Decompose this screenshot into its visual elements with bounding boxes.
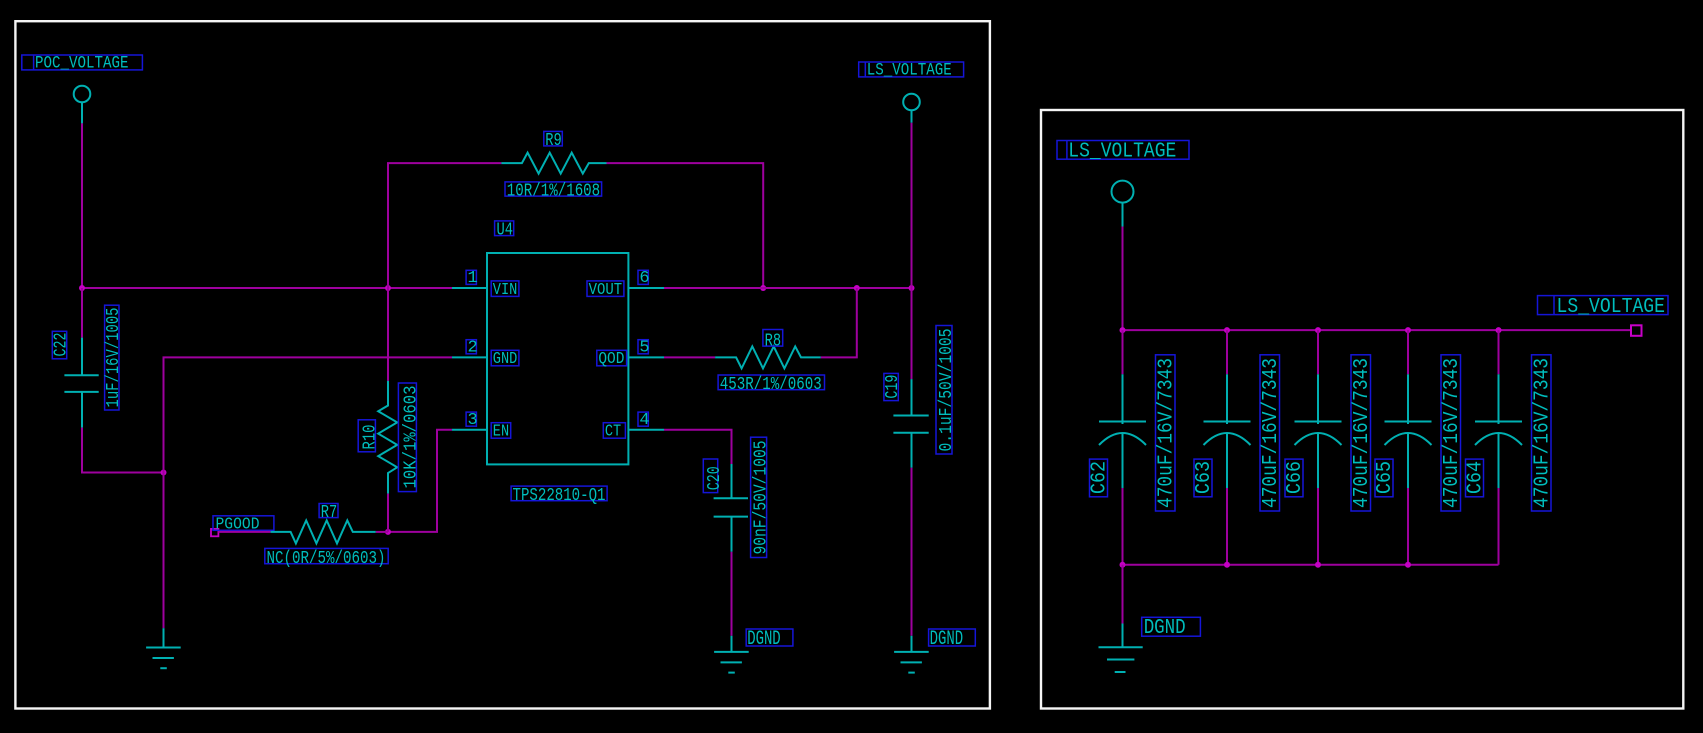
ground [146,628,181,668]
label DGND C19 [929,628,976,651]
flag LS_VOLTAGE right side [1538,296,1669,319]
pin 3 stub [452,429,487,431]
pin number 1 [466,269,478,288]
label C22 [51,331,72,359]
wire R9 left riser [388,163,501,288]
op-amp U4 TPS22810-Q1 body [487,253,628,464]
svg-text:3: 3 [468,411,478,430]
node bus C63 [1224,327,1230,333]
svg-text:LS_VOLTAGE: LS_VOLTAGE [1068,141,1176,164]
wire R8 to VOUT riser [821,288,857,357]
svg-text:453R/1%/0603: 453R/1%/0603 [720,374,822,395]
wire VIN horizontal [82,287,452,289]
svg-text:VIN: VIN [493,281,518,300]
resistor R7 [271,520,376,543]
node GND junction [161,470,167,476]
svg-text:470uF/16V/7343: 470uF/16V/7343 [1531,358,1554,508]
capacitor C65 [1385,374,1432,488]
svg-text:DGND: DGND [1144,617,1186,640]
pin number 2 [466,339,478,358]
pin number 3 [466,411,478,430]
svg-text:5: 5 [639,339,649,358]
resistor R9 [501,153,606,174]
svg-text:C65: C65 [1374,461,1397,494]
svg-text:VOUT: VOUT [589,281,623,300]
svg-text:C19: C19 [882,375,903,399]
value C62 470uF/16V/7343 [1155,355,1178,511]
node bus C65 [1405,327,1411,333]
wire CT to C20 [664,430,732,464]
node bottom bus 4 [1405,562,1411,568]
wire to ground [163,473,165,629]
node VOUT-R9 junction [760,285,766,291]
wire C19 to ground [911,468,913,636]
label C63 [1193,459,1216,497]
ground DGND C20 [714,636,749,673]
svg-text:470uF/16V/7343: 470uF/16V/7343 [1260,358,1283,508]
label R7 [319,502,338,523]
pin name VOUT [587,281,624,300]
svg-text:C64: C64 [1464,461,1487,494]
terminal stub LS left [911,110,913,123]
svg-text:470uF/16V/7343: 470uF/16V/7343 [1351,358,1374,508]
wire PGOOD to R7 [218,531,270,533]
pin square LS_VOLTAGE out [1631,325,1642,336]
label C66 [1284,459,1307,497]
terminal stub LS right [1122,203,1124,227]
svg-text:2: 2 [468,339,478,358]
pin name CT [603,423,625,442]
node EN-R10-R7 junction [385,529,391,535]
wire top bus [1123,329,1631,331]
wire C62 top [1122,330,1124,374]
capacitor C64 [1475,374,1522,488]
label U4 [495,220,514,241]
svg-text:470uF/16V/7343: 470uF/16V/7343 [1155,358,1178,508]
capacitor C19 [893,379,928,468]
node bottom bus 2 [1224,562,1230,568]
node VOUT-C19 junction [909,285,915,291]
svg-text:C62: C62 [1088,461,1111,494]
label DGND right [1142,617,1201,640]
wire C64 top [1498,330,1500,374]
pin name GND [491,350,519,369]
flag LS_VOLTAGE left [859,61,964,81]
value C66 470uF/16V/7343 [1351,355,1374,511]
node bottom bus 1 [1120,562,1126,568]
wire C63 bottom [1226,488,1228,565]
svg-text:DGND: DGND [930,628,964,651]
pin 2 stub [452,356,487,358]
svg-text:DGND: DGND [747,628,781,651]
node VOUT-R8 junction [854,285,860,291]
resistor R8 [715,346,821,368]
sheet border left [15,21,990,708]
svg-text:1uF/16V/1005: 1uF/16V/1005 [103,308,124,408]
svg-text:LS_VOLTAGE: LS_VOLTAGE [867,61,952,81]
svg-text:C20: C20 [704,466,725,490]
wire VOUT to C19 [911,288,913,379]
label R10 [358,420,380,452]
sheet border right [1041,110,1683,709]
capacitor C22 [64,338,98,428]
svg-text:R10: R10 [359,425,380,450]
svg-text:GND: GND [493,350,518,369]
wire R9 right riser [607,163,764,288]
svg-text:C22: C22 [51,333,72,357]
svg-text:R7: R7 [321,502,338,523]
label DGND C20 [746,628,793,651]
label PGOOD [213,515,274,534]
wire LS to VOUT [911,123,913,288]
svg-text:470uF/16V/7343: 470uF/16V/7343 [1441,358,1464,508]
node VIN-R10 junction [385,285,391,291]
wire EN net [388,430,452,532]
svg-text:R8: R8 [765,330,782,351]
pin number 5 [638,339,650,358]
flag LS_VOLTAGE right top [1057,141,1189,164]
wire C65 top [1407,330,1409,374]
wire C64 bottom [1498,488,1500,565]
svg-text:C66: C66 [1284,461,1307,494]
flag POC_VOLTAGE [22,54,143,74]
svg-text:0.1uF/50V/1005: 0.1uF/50V/1005 [936,329,957,452]
wire bottom bus [1123,564,1499,566]
svg-text:6: 6 [639,269,649,288]
wire DGND drop [1122,565,1124,624]
svg-text:1: 1 [468,269,478,288]
terminal circle LS left [903,94,920,111]
node bus C64 [1496,327,1502,333]
node bottom bus 3 [1315,562,1321,568]
label TPS22810-Q1 [511,485,607,506]
wire C66 bottom [1317,488,1319,565]
value C64 470uF/16V/7343 [1531,355,1554,511]
pin number 4 [638,411,650,430]
pin 1 stub [452,287,487,289]
capacitor C20 [714,464,748,552]
svg-text:U4: U4 [497,220,514,241]
pin 6 stub [628,287,664,289]
label C20 [703,459,725,493]
wire QOD to R8 [664,356,715,358]
label C62 [1088,459,1111,497]
pin name VIN [491,281,519,300]
svg-text:POC_VOLTAGE: POC_VOLTAGE [35,54,129,74]
pin name QOD [597,350,627,369]
wire C63 top [1226,330,1228,374]
wire VIN to R10 [387,288,389,381]
capacitor C62 [1099,374,1146,488]
pin square PGOOD [211,529,218,536]
svg-text:90nF/50V/1005: 90nF/50V/1005 [751,441,772,555]
value R8 453R/1%/0603 [718,374,824,395]
ground DGND C19 [894,636,929,673]
svg-text:CT: CT [605,423,621,442]
terminal circle LS right [1112,181,1134,203]
wire VOUT horizontal [664,287,912,289]
pin number 6 [638,269,650,288]
capacitor C66 [1295,374,1342,488]
terminal circle POC_VOLTAGE [74,86,91,103]
pin 4 stub [628,429,664,431]
ground DGND right [1099,624,1143,673]
svg-text:TPS22810-Q1: TPS22810-Q1 [513,485,606,506]
node bus C66 [1315,327,1321,333]
svg-text:EN: EN [493,423,509,442]
wire R10 bottom [387,494,389,532]
value R7 NC(0R/5%/0603) [265,548,388,569]
wire C65 bottom [1407,488,1409,565]
svg-text:10K/1%/0603: 10K/1%/0603 [400,386,421,489]
node bus C62 [1120,327,1126,333]
svg-text:4: 4 [639,411,649,430]
wire C62 bottom [1122,488,1124,565]
svg-text:LS_VOLTAGE: LS_VOLTAGE [1557,296,1666,319]
value R10 10K/1%/0603 [398,383,421,492]
svg-text:10R/1%/1608: 10R/1%/1608 [507,180,601,201]
wire GND pin2 [164,357,453,472]
value R9 10R/1%/1608 [505,180,602,201]
capacitor C63 [1204,374,1251,488]
svg-text:R9: R9 [545,130,562,151]
value C63 470uF/16V/7343 [1260,355,1283,511]
pin 5 stub [628,356,664,358]
terminal stub POC [81,102,83,123]
pin name EN [491,423,511,442]
wire C20 to ground [731,552,733,636]
label R9 [544,130,563,151]
wire C22 top [81,288,83,338]
value C19 0.1uF/50V/1005 [936,326,957,455]
wire R7 to junction [376,531,388,533]
label C64 [1464,459,1487,497]
svg-text:QOD: QOD [598,350,624,369]
wire POC vertical [81,123,83,288]
resistor R10 [378,381,397,494]
label C65 [1374,459,1397,497]
wire C22 bottom [82,428,164,473]
label R8 [763,330,783,352]
svg-text:C63: C63 [1193,461,1216,494]
value C22 1uF/16V/1005 [103,305,124,410]
svg-text:NC(0R/5%/0603): NC(0R/5%/0603) [267,548,386,569]
wire C66 top [1317,330,1319,374]
label C19 [882,373,903,400]
node VIN-POC junction [79,285,85,291]
value C65 470uF/16V/7343 [1441,355,1464,511]
value C20 90nF/50V/1005 [751,437,772,557]
wire LS down [1122,227,1124,331]
